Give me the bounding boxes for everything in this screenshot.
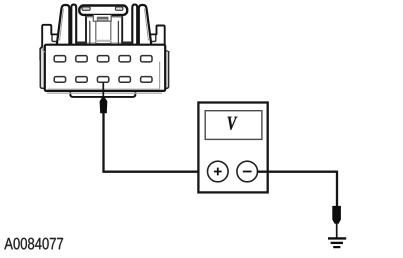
+ sign (214, 168, 222, 176)
wire down to ground probe (336, 171, 338, 207)
connector outer-left prong inner line (60, 9, 64, 40)
connector right ear shelf (150, 33, 157, 35)
left channel bottom shadow (77, 42, 85, 44)
latch button rect (93, 15, 111, 21)
pin 8 (row2 col3, probed) (97, 77, 108, 83)
connector right ear tab (157, 26, 169, 52)
body top-left lip shading (43, 47, 45, 52)
left recess medium line (89, 21, 91, 43)
probe arrow at pin 8 (100, 95, 108, 113)
latch bar left detail rect (82, 7, 90, 10)
left channel wall line (85, 15, 87, 43)
connector inner-right prong (132, 5, 137, 44)
recess shelf lines below bar (86, 16, 122, 18)
body bottom interior shading (48, 62, 160, 89)
ground symbol bar 3 (333, 246, 340, 248)
connector left side flange (40, 49, 45, 88)
wire from - terminal to right corner (258, 171, 337, 173)
pin 4 (row1 col4) (119, 56, 130, 62)
body bottom outer shadow line (48, 92, 162, 94)
voltmeter display window (205, 111, 262, 140)
connector inner-left prong (71, 5, 76, 44)
connector left ear tab (40, 25, 51, 60)
connector center latch column (96, 21, 111, 43)
pin 5 (row1 col5) (141, 56, 152, 62)
voltmeter V label (228, 117, 238, 130)
pin 1 (row1 col1) (54, 56, 65, 62)
voltmeter V1 body (198, 103, 267, 193)
pin 6 (row2 col1) (54, 77, 65, 83)
- sign (243, 171, 252, 173)
connector bottom tab (70, 92, 135, 97)
connector body outline (45, 45, 165, 91)
connector right side flange (165, 51, 169, 88)
connector outer-left lock prong (57, 5, 70, 44)
connector C1 (10-pin) (40, 5, 168, 97)
voltmeter - terminal (237, 161, 258, 182)
latch top bar (79, 6, 127, 15)
shading line above body top edge (61, 42, 148, 44)
connector left ear right edge lower part and foot (52, 34, 60, 42)
connector outer-right prong inner line (145, 9, 149, 40)
ground symbol bar 2 (331, 242, 343, 244)
pin 7 (row2 col2) (76, 77, 87, 83)
voltmeter + terminal (208, 161, 229, 182)
latch button shaded insert (97, 17, 108, 21)
wire from probe arrow down (102, 113, 104, 172)
pin 10 (row2 col5) (141, 77, 152, 83)
ground probe body (332, 206, 341, 224)
connector left ear shelf (51, 33, 58, 35)
pin 9 (row2 col4) (119, 77, 130, 83)
latch button insert dark edge (98, 17, 108, 19)
ground symbol bar 1 (328, 237, 346, 239)
connector body fill (45, 45, 165, 91)
latch column bottom shading (97, 40, 111, 42)
pin 2 (row1 col2) (76, 56, 87, 62)
wire from corner to voltmeter + terminal (102, 171, 208, 173)
connector outer-right lock prong (139, 5, 151, 44)
connector right ear left edge lower part and foot (149, 34, 156, 42)
latch bar right detail rect (115, 7, 123, 10)
wire from probe to ground (336, 223, 338, 238)
wire from pin 8 down to probe arrow (102, 82, 104, 97)
pin 3 (row1 col3) (97, 56, 108, 62)
figure label A0084077 (4, 238, 63, 250)
right recess medium line (117, 21, 119, 43)
right channel wall line (121, 15, 123, 43)
right channel bottom shadow (123, 42, 132, 44)
